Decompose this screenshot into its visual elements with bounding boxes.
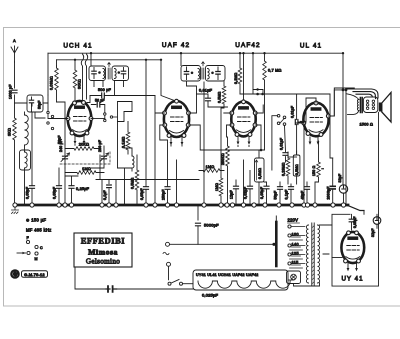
bus junction x=279 — [277, 203, 281, 207]
resistor 0,5 Mohm diode load — [222, 86, 226, 104]
wire coil bottom down — [24, 168, 26, 205]
svg-text:UL 41: UL 41 — [300, 43, 322, 50]
coil T2 primary — [198, 69, 200, 80]
svg-text:C: C — [40, 246, 43, 250]
svg-text:12µF: 12µF — [230, 190, 234, 199]
capacitor 0,05uF (antenna) — [30, 186, 35, 189]
bus junction x=167.5 — [165, 203, 169, 207]
resistor 0,5 Mohm below osc — [135, 170, 139, 190]
resistor 1 Mohm AGC — [77, 171, 96, 175]
output transformer secondary box — [363, 97, 377, 113]
svg-text:0,7 MΩ: 0,7 MΩ — [268, 69, 282, 73]
node dot T1 primary — [98, 71, 101, 74]
wire 0,5M leads — [221, 81, 224, 171]
power transformer primary winding — [306, 225, 308, 283]
potentiometer 0,5 Mohm volume box — [255, 158, 265, 182]
capacitor 0,25uF — [69, 186, 74, 189]
svg-text:0,05µF: 0,05µF — [140, 188, 144, 200]
tube UAF42b pins — [242, 100, 246, 104]
bus junction x=307.5 — [305, 203, 309, 207]
wire 32+32uF drop — [376, 214, 378, 228]
filter capacitor bar — [275, 222, 278, 266]
svg-text:1MΩ: 1MΩ — [206, 165, 215, 169]
resistor 0,03 Mohm oscillator grid — [55, 68, 59, 90]
bus junction x=32 — [30, 203, 34, 207]
node dot grid cap — [300, 121, 303, 124]
filament string box — [193, 270, 288, 290]
wire 0,7M leads — [261, 53, 265, 150]
tube UAF42b envelope — [231, 102, 255, 137]
svg-text:0,1µF: 0,1µF — [103, 190, 107, 200]
svg-text:G: G — [12, 269, 19, 279]
tube UY41 cathode lead arrow — [356, 264, 358, 271]
wire grid network link — [288, 156, 297, 158]
wire UCH41 triode grid left — [48, 95, 68, 119]
wire switch arm — [280, 118, 285, 123]
capacitor 0,05uF (osc cathode) — [57, 186, 62, 189]
wire secondary to UY41 plate — [329, 225, 333, 254]
bus junction x=59 — [57, 203, 61, 207]
AC symbol — [163, 252, 169, 255]
wire filament return bottom — [74, 267, 193, 289]
tube UL41 cathode lead arrow — [317, 137, 319, 144]
wire screen drop x253 — [252, 53, 254, 94]
coil oscillator 000 — [132, 156, 134, 168]
IF transformer T1 secondary box — [112, 66, 129, 81]
wire IFT2 core down to bus — [203, 82, 205, 205]
coil T1 secondary — [115, 69, 117, 79]
svg-text:0,05µF: 0,05µF — [353, 216, 357, 228]
wire osc coil top — [124, 148, 132, 156]
tube UCH41 cathode lead arrow — [83, 137, 85, 144]
tube UY41 cathode lead arrow — [347, 264, 349, 271]
svg-text:0,25µF: 0,25µF — [76, 187, 90, 191]
speaker cone — [382, 93, 391, 123]
tube UY41 envelope — [341, 232, 364, 263]
tube UY41 inner electrodes — [346, 237, 360, 259]
svg-text:UY 41: UY 41 — [341, 276, 363, 283]
wire taps to winding — [291, 227, 305, 264]
node dot T2 primary — [191, 72, 194, 75]
oscillator coil frame — [118, 102, 133, 122]
bus junction x=227 — [225, 203, 229, 207]
wire osc links — [118, 122, 133, 206]
resistor 250 Kohm — [226, 146, 230, 166]
coil antenna secondary 000 — [25, 152, 28, 168]
bus junction x=102 — [100, 203, 104, 207]
wire 30K drops — [74, 60, 76, 101]
svg-text:32µF: 32µF — [338, 174, 342, 183]
tube UAF42b inner electrodes — [237, 107, 251, 133]
dial lamp — [287, 271, 301, 284]
svg-text:32µF: 32µF — [371, 228, 375, 237]
resistor 30 Kohm — [73, 70, 77, 88]
IF transformer T1 core — [108, 68, 110, 79]
capacitor 40uF — [305, 187, 310, 190]
svg-text:0,01µF: 0,01µF — [280, 138, 284, 150]
wire bus tail diagonal to rectifier ground — [348, 206, 364, 211]
wire T1 secondary down to 500pF line — [115, 81, 124, 96]
bus junction x=254 — [252, 203, 256, 207]
coil output secondary turn dots — [366, 100, 374, 110]
filament series loops — [198, 281, 290, 288]
svg-text:F: F — [27, 236, 30, 240]
wire avc drop x109 — [108, 180, 110, 206]
capacitor 250 pF cathode — [165, 187, 170, 190]
capacitor in T2 secondary — [216, 72, 220, 75]
ground symbol chassis — [12, 207, 19, 214]
tube UL41 cathode lead arrow — [309, 137, 311, 144]
wire screen feed x146 — [145, 60, 147, 205]
wire rail drop to IFT2 — [180, 53, 182, 65]
wire 500pF left into grid region — [87, 96, 90, 103]
tube UAF42a cathode lead arrow — [170, 138, 172, 145]
capacitor 5000 pF — [196, 223, 201, 226]
wire node x65 to bus — [64, 168, 66, 205]
wire res 0,5M to bus — [136, 155, 138, 205]
bus junction x=146 — [144, 203, 148, 207]
wire phono cap leads — [285, 125, 286, 162]
svg-text:1MΩ: 1MΩ — [215, 183, 219, 191]
resistor 3 Kohm — [13, 118, 17, 140]
wire primary top lead — [346, 94, 359, 100]
svg-text:50µF: 50µF — [274, 191, 278, 200]
wire padder leads — [57, 102, 66, 168]
bus junction x=155 — [153, 203, 157, 207]
svg-text:0,23MΩ: 0,23MΩ — [282, 162, 286, 176]
wire 250K leads — [227, 137, 229, 205]
capacitor 50uF cathode bypass — [278, 187, 283, 190]
tube UL41 pins — [314, 101, 318, 105]
svg-text:50 pF: 50 pF — [95, 99, 105, 103]
tube UY41 pins — [347, 231, 351, 235]
svg-text:Mimosa: Mimosa — [88, 248, 118, 257]
capacitor 32uF electrolytic circled — [339, 185, 347, 193]
resistor 1 Mohm lower vertical — [219, 178, 223, 196]
coil T2 secondary — [208, 69, 210, 80]
svg-text:0,03MΩ: 0,03MΩ — [50, 76, 54, 90]
svg-text:5000pF: 5000pF — [204, 223, 219, 228]
wire 0,01uF leads — [197, 94, 228, 107]
node dot T1 secondary — [118, 71, 121, 74]
wire 32uF lower lead — [343, 193, 345, 205]
node dots on rails — [74, 59, 76, 61]
wire 1M leads 2 — [199, 170, 224, 172]
tube UCH41 envelope — [68, 101, 92, 136]
capacitor in T1 primary — [92, 71, 96, 74]
bus junction x=304 — [302, 203, 306, 207]
power transformer core hatched — [312, 223, 314, 285]
wire UAF42a cathode to bus — [171, 145, 182, 205]
capacitor 0,05uF at UY41 — [349, 219, 354, 222]
svg-text:G.M.76-12: G.M.76-12 — [24, 272, 45, 277]
svg-text:0,1µF: 0,1µF — [285, 189, 289, 199]
wire UCH41 cathode leads to bus — [75, 144, 102, 205]
wire mains line — [170, 243, 275, 245]
tube UAF42a envelope — [164, 101, 189, 137]
wire UY41 top feed — [352, 211, 365, 231]
power switch lever — [169, 266, 180, 283]
wire UCH41 right pin to oscillator coil — [91, 118, 105, 120]
tube UAF42a inner electrodes — [170, 106, 184, 133]
wire B+ drop to 5000pF — [197, 206, 199, 220]
coil output transformer primary — [357, 100, 358, 111]
bus junction x=333 — [331, 203, 335, 207]
capacitor 12 uF electrolytic — [234, 186, 239, 189]
resistor 150 ohm cathode — [317, 162, 321, 177]
bus junction x=116 — [114, 203, 118, 207]
band switch contacts at antenna coil — [47, 111, 49, 113]
svg-text:UAF42: UAF42 — [235, 42, 260, 49]
capacitor 2000 pF tone — [330, 186, 335, 189]
wire 0,2M top — [239, 53, 241, 94]
phono arrow terminal — [17, 252, 26, 254]
phono terminal C — [35, 245, 38, 248]
wire UAF42b right pins — [255, 105, 263, 150]
wire hop-over squiggle 1 — [81, 54, 84, 67]
wire B+ long vertical to rectifier — [342, 90, 344, 185]
svg-text:0,5MΩ: 0,5MΩ — [295, 164, 299, 175]
wire padder2 leads — [91, 146, 104, 168]
wire UAF42a diode pin right — [187, 81, 262, 150]
svg-text:~: ~ — [322, 167, 325, 171]
svg-text:40µF: 40µF — [301, 191, 305, 200]
wire coil top to box — [24, 112, 26, 152]
IF transformer T2 primary box — [181, 66, 201, 82]
power transformer secondary winding — [318, 225, 320, 283]
capacitor 0,025uF — [106, 288, 117, 290]
svg-text:500 pF: 500 pF — [98, 88, 112, 92]
wire field coil vertical return — [345, 90, 347, 204]
wire right B+ drop — [330, 53, 343, 158]
wire primary bottom lead — [348, 111, 359, 115]
wire x155 vertical — [154, 96, 156, 206]
wire UY41 cathode left — [332, 257, 342, 259]
capacitor 50 pF at UCH41 — [97, 102, 100, 107]
wire 150ohm leads — [315, 141, 319, 205]
capacitor in T1 secondary — [121, 71, 125, 74]
svg-text:0,01µF: 0,01µF — [199, 89, 213, 93]
svg-text:0,5MΩ: 0,5MΩ — [218, 91, 222, 103]
IF transformer T1 tuning arrow — [108, 62, 111, 66]
svg-text:⊕ 150 µF: ⊕ 150 µF — [26, 218, 46, 223]
bus junction x=65 — [63, 203, 67, 207]
wire UAF42b cathode to bus — [238, 146, 249, 206]
wire 500pF line to x155 — [115, 95, 156, 97]
tube UAF42a cathode lead arrow — [181, 138, 183, 145]
capacitor 1000 pF antenna series — [12, 90, 17, 93]
tube UCH41 cathode lead arrow — [74, 137, 76, 144]
resistor 0,7 Mohm — [263, 61, 267, 80]
wire AGC upper stub — [253, 90, 263, 95]
wire filament box to lamp — [288, 279, 294, 281]
wire 5000pF to mains line — [197, 226, 199, 244]
coil T1 primary — [103, 69, 105, 79]
wire UL41 plate to output transformer — [328, 88, 354, 116]
wire antenna down-lead — [14, 62, 16, 88]
wire UAF42b left pins — [224, 113, 232, 137]
bus junction x=265 — [263, 203, 267, 207]
svg-text:0,05µF: 0,05µF — [26, 187, 30, 199]
tap circle 220 — [288, 225, 291, 228]
logo circle G — [10, 269, 20, 279]
bus junction x=176.5 — [174, 203, 178, 207]
svg-text:1MΩ: 1MΩ — [82, 167, 91, 171]
wire transformer secondary taps — [301, 225, 330, 286]
bus junction x=15 — [13, 203, 17, 207]
wire UCH41 top pins up — [83, 67, 87, 101]
wire 50pF stub — [91, 105, 105, 119]
svg-text:EFFEDIBI: EFFEDIBI — [81, 237, 125, 246]
node dots AGC — [256, 93, 259, 96]
resistor 0,5 Mohm boxed — [293, 155, 300, 176]
wire boxed res leads — [296, 151, 298, 184]
wire resistor to node — [56, 66, 58, 102]
svg-text:MF 465 kHz: MF 465 kHz — [26, 228, 52, 233]
resistor 0,23 Mohm — [286, 158, 290, 176]
IF transformer T2 secondary box — [206, 66, 226, 82]
mains terminal lower — [167, 262, 171, 266]
node dot at filter cap — [272, 243, 275, 246]
wire grid drop to UAF42b — [243, 53, 245, 100]
node dot B+ junction 1 — [342, 89, 345, 92]
wire B+ top rail — [48, 52, 343, 54]
mains terminal upper — [166, 242, 170, 246]
wire AVC line above bus — [96, 179, 199, 181]
svg-text:0,05µF: 0,05µF — [260, 187, 264, 199]
tube UAF42b cathode lead arrow — [237, 137, 239, 144]
wire UL41 left pin — [296, 123, 304, 205]
svg-text:0,1MΩ: 0,1MΩ — [122, 136, 126, 148]
tuning gang dashed link — [60, 150, 110, 164]
wire resistor 3K to bus — [14, 140, 16, 205]
UY41 enclosure box — [332, 113, 379, 287]
wire T1 primary down — [94, 81, 103, 87]
wire pot leads — [258, 150, 260, 205]
wire 1M lower leads — [220, 171, 222, 206]
wire avc drop x116 — [115, 180, 117, 206]
bus junction x=343.5 — [341, 203, 345, 207]
tube UL41 envelope — [303, 103, 328, 137]
output transformer core — [360, 98, 362, 113]
tube UAF42a pins — [175, 99, 179, 103]
wire cap pot leads — [249, 171, 251, 206]
speaker field coil hook arcs — [346, 89, 378, 99]
svg-text:0,2MΩ: 0,2MΩ — [234, 72, 238, 84]
wire grid cap leads — [297, 94, 316, 155]
svg-text:1000 pF: 1000 pF — [9, 84, 13, 99]
capacitor 0,1uF — [289, 187, 294, 190]
capacitor 500 pF — [102, 93, 105, 98]
wire AGC line right half — [240, 93, 330, 95]
IF transformer T1 primary box — [89, 66, 106, 81]
svg-text:250pF: 250pF — [162, 189, 166, 200]
wire AGC drops — [329, 94, 331, 101]
wire UL41 plate riser to B+ node — [328, 90, 346, 116]
bus junction x=71.5 — [69, 203, 73, 207]
wire 1M ends — [65, 172, 104, 174]
svg-text:M: M — [35, 257, 38, 261]
svg-text:30KΩ: 30KΩ — [78, 79, 82, 89]
svg-text:Gelsomino: Gelsomino — [86, 258, 120, 266]
bus junction x=204 — [202, 203, 206, 207]
coil antenna primary 0000 — [25, 115, 29, 145]
svg-text:0,02µF: 0,02µF — [244, 187, 248, 199]
svg-text:250KΩ: 250KΩ — [221, 153, 225, 165]
wire 12uF leads — [235, 180, 237, 205]
capacitor 0,05uF screen bypass — [144, 187, 149, 190]
bus junction x=292 — [290, 203, 294, 207]
wire UL41 grid drop — [315, 98, 317, 103]
bus junction x=221 — [219, 203, 223, 207]
wire hop-over squiggle 2 — [85, 54, 88, 67]
svg-text:0,025µF: 0,025µF — [202, 293, 219, 298]
capacitor small x109 — [107, 185, 112, 188]
wire UAF42a left pins — [156, 113, 168, 205]
pot wiper arrow — [255, 160, 258, 180]
capacitor padder 280 pF with trimmer arrow — [102, 156, 107, 159]
node dot T2 secondary — [211, 72, 214, 75]
nameplate box EFFEDIBI — [74, 233, 132, 267]
bus junction x=243.5 — [241, 203, 245, 207]
band switch contacts — [104, 113, 106, 115]
tube UCH41 pins — [73, 101, 77, 105]
logo tag G.M.76-12 — [22, 271, 48, 278]
wire vertical x32 — [31, 103, 33, 183]
resistor 0,2 Mohm screen — [238, 68, 242, 84]
phono terminal M — [35, 252, 38, 255]
capacitor 32+32uF circled — [373, 217, 381, 225]
speaker driver rect — [379, 103, 382, 112]
wire cap x71 leads — [65, 176, 78, 205]
svg-text:A: A — [13, 39, 16, 43]
wire 20K ends — [65, 141, 100, 149]
wire oscillator vertical — [117, 122, 119, 169]
resistor 1 Mohm AF grid — [203, 169, 220, 173]
wire screen rail — [57, 60, 176, 101]
wire antenna lead down — [14, 95, 16, 118]
IF transformer T2 tuning arrow — [202, 62, 205, 66]
capacitor 0,05uF right of pot — [264, 186, 269, 189]
svg-text:UCH 41: UCH 41 — [63, 43, 92, 50]
svg-text:0,05µF: 0,05µF — [53, 187, 57, 199]
tube UL41 inner electrodes — [309, 108, 323, 133]
tube UCH41 inner electrodes — [73, 106, 87, 132]
svg-text:220V: 220V — [288, 218, 299, 223]
wire cap x59 — [58, 168, 60, 205]
svg-text:UY41 UL41 UCH41 UAF42 UAF42: UY41 UL41 UCH41 UAF42 UAF42 — [196, 273, 258, 277]
svg-text:1500 Ω: 1500 Ω — [360, 123, 374, 127]
ground bus — [15, 204, 348, 207]
svg-text:50pF: 50pF — [38, 100, 42, 109]
capacitor 0,02uF to pot — [248, 186, 253, 189]
capacitor trimmer in antenna box — [29, 100, 33, 103]
svg-text:3KΩ: 3KΩ — [8, 128, 12, 136]
node dot plate-diode junction — [260, 149, 263, 152]
wire switch to filament box — [183, 283, 194, 285]
wire rail left drop — [48, 53, 57, 95]
wire 500pF line — [90, 95, 115, 97]
antenna A — [11, 46, 18, 62]
capacitor in T2 primary — [184, 72, 188, 75]
resistor 0,1 Mohm oscillator — [126, 132, 130, 150]
bus junction x=109 — [107, 203, 111, 207]
bus junction x=315 — [313, 203, 317, 207]
svg-text:150 Ω: 150 Ω — [312, 165, 316, 176]
IF transformer T2 core — [202, 68, 204, 79]
capacitor padder 240 pF with trimmer arrow — [63, 156, 68, 159]
svg-text:0,5MΩ: 0,5MΩ — [258, 168, 262, 179]
